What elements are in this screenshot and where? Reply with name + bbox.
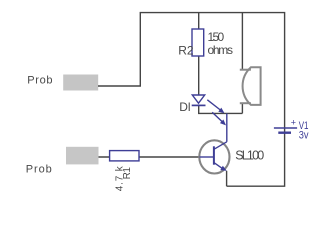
svg-text:R1: R1 (122, 167, 133, 180)
svg-text:Prob: Prob (26, 163, 52, 175)
svg-text:SL100: SL100 (235, 148, 264, 162)
svg-text:+: + (291, 117, 296, 127)
svg-text:Prob: Prob (27, 74, 52, 86)
svg-text:R2: R2 (178, 43, 194, 57)
svg-text:D: D (179, 100, 188, 114)
svg-text:l: l (188, 100, 191, 114)
svg-text:150: 150 (208, 30, 225, 44)
svg-text:3v: 3v (299, 130, 309, 142)
svg-text:ohms: ohms (208, 43, 234, 57)
